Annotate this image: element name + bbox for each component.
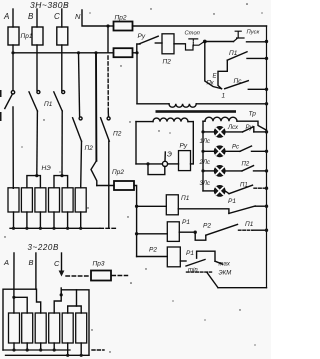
- wire lamp1 to rail: [254, 131, 267, 133]
- contact ЭКМ max: [215, 261, 223, 264]
- contact Ру lamp blade: [243, 127, 254, 132]
- contact П2 lamp blade: [242, 166, 254, 171]
- relay coil П2: [162, 34, 174, 54]
- svg-text:max: max: [219, 262, 231, 268]
- node rail dot row2: [265, 229, 268, 232]
- contactor П2 pole 1 pivot: [79, 117, 82, 120]
- svg-text:П2: П2: [242, 162, 250, 168]
- wire pole B out: [36, 111, 39, 176]
- node rail dot row1: [265, 205, 268, 208]
- heating element HE3: [35, 188, 46, 212]
- wire jumper2: [54, 176, 68, 188]
- transformer Тр secondary 1: [153, 118, 188, 121]
- node rail dot primary: [265, 102, 268, 105]
- wire phase A2: [13, 253, 15, 297]
- wire HB2 stub: [26, 343, 28, 350]
- wire bank2 bus dashed tail: [92, 349, 104, 351]
- svg-text:2Лс: 2Лс: [199, 160, 210, 166]
- wire Э loop right rail: [192, 122, 194, 164]
- wire phase B to contact: [36, 45, 38, 90]
- contactor П2 pole 2 blade: [101, 118, 110, 141]
- svg-text:3Лс: 3Лс: [200, 181, 210, 187]
- wire П1 aux to rail: [247, 57, 267, 59]
- svg-text:А: А: [3, 258, 9, 267]
- contact Р1 row1 blade: [229, 206, 255, 213]
- wire Э sub loop: [148, 164, 165, 175]
- svg-text:N: N: [75, 12, 81, 21]
- svg-text:Пр2: Пр2: [115, 15, 127, 22]
- wire ЭКМ pointer: [207, 273, 218, 288]
- node rail dot lamp4: [265, 187, 268, 190]
- wire phase B2: [35, 253, 37, 289]
- wire mid feeder leg2: [77, 306, 82, 313]
- wire primary left: [137, 103, 169, 105]
- wire Пуск to rail: [247, 41, 267, 43]
- svg-text:3~220В: 3~220В: [28, 243, 59, 252]
- wire HE4 bottom stub: [53, 212, 55, 228]
- svg-text:П1: П1: [245, 221, 254, 228]
- svg-text:С: С: [54, 12, 60, 21]
- node rail dot lamp2: [265, 150, 268, 153]
- node rail dot top: [265, 40, 268, 43]
- wire mid feeder bank2: [68, 290, 77, 313]
- node relay rail dot 2: [135, 232, 138, 235]
- wire rail to Р1 coil: [137, 233, 168, 235]
- node bus dot 1: [12, 227, 15, 230]
- svg-text:Пр2: Пр2: [112, 169, 124, 176]
- relay coil Р2: [167, 247, 180, 267]
- wire to lamp 3Лс: [203, 190, 214, 192]
- wire lamp2 to rail: [252, 150, 267, 152]
- electrode Э connector circle: [162, 161, 167, 166]
- wire phase A top: [12, 9, 14, 27]
- wire neutral N: [82, 10, 108, 26]
- contactor П1 pole A blade: [5, 94, 13, 108]
- svg-text:Р1: Р1: [186, 250, 194, 257]
- wire П2 pole 2 out: [108, 141, 110, 228]
- wire HB6 stub: [80, 343, 82, 355]
- wire HE5 bottom stub: [67, 212, 69, 228]
- node bank2 dot 1: [12, 348, 15, 351]
- contact Ру blade: [140, 36, 158, 43]
- svg-text:П1: П1: [44, 101, 53, 108]
- node N junction: [106, 24, 109, 27]
- node bank2 dot 6: [80, 354, 83, 357]
- node jumper2 junction: [60, 174, 63, 177]
- wire right rail: [266, 26, 268, 288]
- wire bank2 top left feed: [3, 289, 36, 350]
- svg-text:Пк: Пк: [207, 81, 215, 87]
- svg-text:1Лс: 1Лс: [200, 139, 210, 145]
- node A2 junction: [12, 296, 15, 299]
- wire bank2 bottom bus: [3, 349, 70, 351]
- node bus junction f1: [77, 51, 80, 54]
- wire N junction to fuse: [108, 25, 114, 27]
- wire secondary1 left lead: [136, 121, 153, 123]
- node row2 junction: [194, 231, 197, 234]
- contactor П1 pole B blade: [29, 92, 37, 111]
- wire lamp3 to contact: [225, 170, 242, 172]
- heating element HE6: [75, 188, 86, 212]
- wire jumper1: [27, 176, 41, 188]
- svg-text:Рс: Рс: [232, 145, 239, 151]
- wire Э loop left rail: [135, 122, 137, 164]
- svg-text:Е: Е: [213, 74, 218, 80]
- wire Ру coil to right: [191, 163, 194, 165]
- wire bank1 bottom bus: [10, 227, 100, 229]
- scan edge blob 2: [0, 112, 2, 121]
- node Э junction: [146, 162, 149, 165]
- node rail dot Пс: [265, 88, 268, 91]
- wire N fuse to right rail: [133, 25, 267, 27]
- wire Ру to coil П2: [155, 42, 162, 44]
- wire row2 to rail: [253, 229, 267, 231]
- contact П1 aux blade: [227, 52, 247, 60]
- svg-text:ЭКМ: ЭКМ: [219, 271, 232, 277]
- heating element HB4: [49, 313, 60, 343]
- node lamp rail dot 2: [201, 150, 204, 153]
- node bank2 dot 4: [53, 348, 56, 351]
- wire phase B top: [36, 9, 38, 27]
- contact Рс blade: [240, 146, 252, 151]
- node bus dot 3: [39, 227, 42, 230]
- node control rail junction: [135, 51, 138, 54]
- fuse Пр1 pole B: [32, 27, 43, 45]
- svg-text:Р1: Р1: [182, 219, 190, 226]
- wire to lamp Лсх: [203, 131, 214, 133]
- node bank2 dot 3: [39, 348, 42, 351]
- wire bottom return: [218, 287, 267, 289]
- wire down from start node: [205, 42, 222, 89]
- wire HB1 stub: [13, 343, 15, 350]
- node start junction: [203, 40, 207, 44]
- svg-text:Пр3: Пр3: [93, 261, 105, 268]
- svg-text:Пуск: Пуск: [247, 30, 260, 36]
- relay coil Ру: [179, 151, 191, 171]
- fuse Пр2 mid: [114, 181, 134, 190]
- wire bank2 lower bus: [6, 354, 90, 356]
- wire to Пуск: [205, 41, 234, 43]
- wire ЭКМ max jumper: [197, 251, 215, 261]
- heating element HB2: [22, 313, 33, 343]
- svg-text:Ру: Ру: [180, 143, 188, 150]
- wire Р2 coil out: [180, 260, 186, 262]
- svg-text:П2: П2: [85, 145, 94, 152]
- wire П1 aux step: [218, 60, 227, 88]
- wire HB4 stub: [53, 343, 55, 350]
- relay coil П1: [166, 195, 178, 215]
- contactor П1 pole B pivot: [37, 91, 40, 94]
- scan edge blob 1: [0, 90, 2, 97]
- pushbutton Стоп stem: [192, 39, 194, 46]
- svg-text:В: В: [28, 12, 34, 21]
- fuse Пр1 pole A: [8, 27, 19, 45]
- contactor П2 pole 1 blade: [73, 118, 82, 141]
- wire HE1 bottom stub: [13, 212, 15, 228]
- svg-text:Стоп: Стоп: [185, 31, 201, 37]
- pushbutton Стоп NC: [186, 39, 204, 50]
- node relay rail dot 1: [135, 205, 138, 208]
- contact П1 lamp blade: [229, 185, 253, 194]
- wire lamp loop left rail: [202, 121, 204, 191]
- wire A2 jumper: [14, 297, 27, 313]
- svg-text:Пр1: Пр1: [21, 33, 33, 40]
- wire row2 step: [195, 232, 206, 240]
- svg-text:Р2: Р2: [203, 223, 211, 230]
- wire fuse to control rail: [133, 52, 138, 54]
- lamp 2Лс: [214, 166, 225, 177]
- fuse Пр2 lower: [114, 48, 133, 57]
- wire lamp3 to rail: [254, 170, 267, 172]
- wire control rail: [136, 53, 138, 104]
- wire HB5 stub: [67, 343, 69, 355]
- wire B2 branch via rail top: [37, 289, 41, 313]
- svg-text:Э: Э: [167, 152, 172, 159]
- contact ЭКМ min dashed: [187, 271, 212, 273]
- contactor П1 pole C blade: [54, 92, 62, 111]
- svg-text:П1: П1: [229, 50, 238, 57]
- fuse Пр2 upper: [114, 22, 133, 31]
- wire HE2 bottom stub: [26, 212, 28, 228]
- node bus-A junction: [11, 51, 14, 54]
- node bus dot 4: [52, 227, 55, 230]
- wire C2 to right rail: [61, 290, 89, 356]
- node C2 junction: [60, 293, 63, 296]
- node rail dot П1: [265, 57, 268, 60]
- svg-text:Тр: Тр: [249, 111, 257, 118]
- svg-text:Пс: Пс: [234, 78, 243, 85]
- relay coil Р1: [167, 222, 179, 242]
- contact Пс blade: [225, 81, 249, 89]
- node bus dot 5: [66, 227, 69, 230]
- wire phase A to contact: [12, 45, 14, 90]
- contact Р2 row2 blade: [206, 224, 238, 235]
- svg-text:Лсх: Лсх: [227, 125, 239, 131]
- wire lamp4 dashed to rail: [254, 187, 267, 189]
- wire lamp loop top left: [203, 120, 205, 122]
- wire N junction drop: [107, 26, 109, 53]
- heating element HE4: [49, 188, 60, 212]
- wire phase C2 lower: [60, 288, 62, 295]
- node bank2 dot 2: [26, 348, 29, 351]
- svg-text:П2: П2: [113, 131, 122, 138]
- wire to lamp 2Лс: [203, 170, 214, 172]
- wire HB3 stub: [40, 343, 42, 350]
- svg-text:Р1: Р1: [228, 198, 236, 205]
- svg-text:Р2: Р2: [149, 247, 157, 254]
- node lamp rail dot 3: [201, 169, 204, 172]
- wire П1 coil to contact Р1: [178, 209, 229, 214]
- heating element HB1: [9, 313, 20, 343]
- fuse Пр1 pole C: [57, 27, 68, 45]
- node jumper1 junction: [35, 174, 38, 177]
- wire coil П2 to Стоп: [174, 43, 185, 45]
- wire lamp1 to contact: [225, 131, 242, 133]
- wire HE6 bottom stub: [80, 212, 82, 228]
- wire lamp4 to contact: [225, 191, 229, 194]
- wire Р1 coil to node: [179, 231, 195, 233]
- wire П2 feeder 3 dashed: [107, 56, 109, 113]
- wire middle feeder hook: [91, 161, 97, 186]
- wire row1 to rail: [255, 205, 266, 207]
- svg-text:1: 1: [222, 93, 226, 100]
- svg-text:А: А: [3, 12, 9, 21]
- wire secondary1 right lead: [188, 121, 193, 123]
- node rail dot lamp1: [265, 130, 268, 133]
- node bus junction f2: [94, 51, 97, 54]
- wire bank1 bus dashed tail: [100, 227, 117, 229]
- wire rail to П1 coil: [137, 205, 167, 207]
- node lamp rail dot 1: [201, 130, 204, 133]
- fuse Пр3: [91, 271, 111, 281]
- svg-text:С: С: [54, 259, 60, 268]
- wire bus: [13, 52, 114, 54]
- wire fuse mid to relay rail: [134, 186, 137, 257]
- heating element HE2: [21, 188, 32, 212]
- wire Пс to rail: [248, 88, 266, 90]
- wire pole A out: [12, 107, 14, 188]
- wire HE3 bottom stub: [39, 212, 41, 228]
- transformer Тр primary winding: [169, 104, 196, 107]
- wire row2 dashed link: [239, 229, 253, 231]
- heating element HE5: [62, 188, 73, 212]
- contact Р1 row3 blade: [186, 260, 205, 267]
- node bus dot 2: [25, 227, 28, 230]
- wire Э loop bottom left: [136, 163, 162, 165]
- arrow C2: [59, 271, 65, 277]
- svg-text:П1: П1: [181, 195, 190, 202]
- svg-text:В: В: [29, 258, 34, 267]
- wire П2 feeder 3: [107, 113, 109, 117]
- wire rail corner Ру: [137, 44, 140, 53]
- contactor П1 pole C pivot: [62, 91, 65, 94]
- svg-text:П2: П2: [163, 59, 172, 66]
- wire phase C2 with arrow: [61, 253, 63, 271]
- electrode Э stem: [164, 152, 166, 161]
- contactor П2 pole 2 pivot: [107, 117, 110, 120]
- wire primary right: [196, 103, 266, 105]
- wire to fuse Пр2 mid: [97, 185, 114, 187]
- wire pole C out: [61, 111, 63, 176]
- transformer Тр core: [156, 110, 237, 113]
- svg-text:3Н~380В: 3Н~380В: [30, 0, 69, 10]
- heating element HB3: [35, 313, 46, 343]
- wire to lamp 1Лс: [203, 150, 214, 152]
- wire П2 pole 1 out to element: [80, 141, 83, 188]
- pushbutton Пуск NO: [234, 31, 245, 41]
- wire lamp2 to contact: [225, 150, 240, 152]
- lamp 1Лс: [214, 146, 225, 157]
- lamp 3Лс: [214, 186, 225, 197]
- wire dashes to Пр3: [66, 275, 89, 277]
- svg-text:НЭ: НЭ: [42, 165, 52, 172]
- wire dashes right of Пр3: [112, 275, 128, 277]
- node bus dot 6: [79, 227, 82, 230]
- wire lamp loop top right: [237, 121, 267, 130]
- contactor П1 pole A pivot: [11, 91, 14, 94]
- wire phase C top: [61, 9, 63, 27]
- speckle group: [4, 3, 262, 352]
- node rail dot lamp3: [265, 169, 268, 172]
- heating element HE1: [8, 188, 19, 212]
- node bank2 dot 5: [66, 354, 69, 357]
- wire phase C to contact: [61, 45, 63, 90]
- transformer Тр secondary 2: [205, 117, 237, 121]
- wire Э loop bottom right: [168, 163, 179, 165]
- wire rail corner to Р2 coil: [137, 256, 168, 258]
- wire П2 feeder 1: [79, 53, 80, 117]
- heating element HB5: [62, 313, 73, 343]
- wire middle feeder: [95, 53, 97, 161]
- svg-text:Ру: Ру: [138, 33, 146, 40]
- heating element HB6: [76, 313, 87, 343]
- wire C2 bracket left: [54, 295, 61, 313]
- lamp Лсх: [214, 126, 225, 137]
